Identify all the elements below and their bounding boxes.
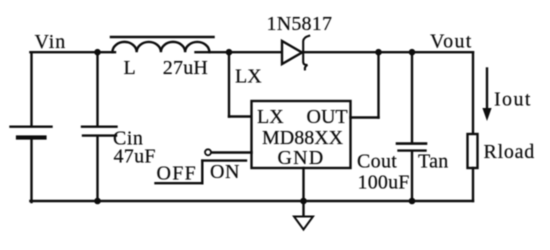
battery B1 negative plate	[18, 135, 45, 139]
svg-text:GND: GND	[278, 147, 325, 169]
svg-text:100uF: 100uF	[358, 172, 410, 194]
switch SW1 pivot circle	[205, 149, 211, 155]
wire Tan bottom to rail	[411, 151, 413, 201]
svg-text:27uH: 27uH	[163, 57, 208, 79]
diode D1 1N5817 triangle	[282, 41, 302, 64]
junction node at GND rail	[300, 198, 307, 205]
Iout current arrow shaft	[486, 69, 488, 111]
wire top rail mid segment (inductor to diode)	[196, 51, 283, 53]
wire Rload bottom to rail	[472, 168, 474, 201]
switch SW1 OFF level bar	[156, 182, 203, 184]
svg-text:Iout: Iout	[494, 89, 532, 111]
svg-text:LX: LX	[257, 106, 284, 128]
Iout arrowhead	[482, 108, 491, 121]
svg-text:OUT: OUT	[307, 106, 348, 128]
capacitor Cin bottom plate	[83, 134, 116, 136]
svg-text:47uF: 47uF	[114, 146, 156, 168]
wire OUT pin vertical up to Vout rail	[377, 52, 379, 117]
wire LX branch vertical	[228, 52, 230, 116]
junction node at Tan top	[409, 49, 416, 56]
ground triangle symbol	[294, 217, 313, 230]
wire EN pin (switch to IC)	[212, 151, 252, 153]
wire Vout branch down to Rload	[472, 52, 474, 134]
inductor L1 core bar	[111, 36, 214, 39]
capacitor Tan bottom plate	[399, 149, 426, 151]
svg-text:Vin: Vin	[35, 31, 67, 53]
svg-text:Rload: Rload	[484, 141, 536, 163]
junction node at Tan bottom	[409, 198, 416, 205]
battery B1 positive plate	[11, 125, 52, 127]
svg-text:Vout: Vout	[430, 30, 473, 52]
svg-text:1N5817: 1N5817	[267, 13, 333, 35]
wire OUT pin horizontal	[351, 116, 379, 118]
capacitor Tan top plate	[397, 142, 426, 145]
svg-text:ON: ON	[210, 161, 240, 183]
wire bottom ground rail	[30, 200, 473, 202]
wire Cout/Tan branch top	[411, 52, 413, 143]
resistor Rload body	[468, 134, 478, 168]
svg-text:LX: LX	[235, 66, 262, 88]
wire GND pin down	[302, 168, 304, 201]
junction node at Cin top	[94, 49, 101, 56]
wire LX branch horizontal into IC	[229, 115, 252, 117]
switch SW1 ON level bar	[202, 159, 246, 161]
ground stub	[302, 201, 304, 217]
switch SW1 lever vertical	[201, 161, 203, 184]
wire Cin top	[96, 52, 98, 126]
wire left vertical (Vin branch down to battery)	[30, 52, 32, 126]
inductor L1 winding humps	[112, 42, 209, 52]
svg-text:Cout: Cout	[357, 151, 397, 173]
wire Cin bottom	[96, 136, 98, 201]
diode D1 schottky cathode bar	[303, 36, 309, 70]
wire battery to ground rail	[30, 139, 32, 203]
junction node at LX top	[226, 49, 233, 56]
svg-text:MD88XX: MD88XX	[262, 127, 344, 149]
junction node at OUT top	[375, 49, 382, 56]
junction node at Cin bottom	[94, 198, 101, 205]
svg-text:L: L	[124, 57, 136, 79]
wire top rail left segment	[30, 51, 115, 53]
wire top rail right segment (diode to Vout corner)	[303, 51, 473, 53]
capacitor Cin top plate	[82, 125, 117, 127]
svg-text:Tan: Tan	[418, 151, 449, 173]
svg-text:OFF: OFF	[157, 163, 198, 185]
op-amp U1 IC body MD88XX	[252, 101, 351, 168]
